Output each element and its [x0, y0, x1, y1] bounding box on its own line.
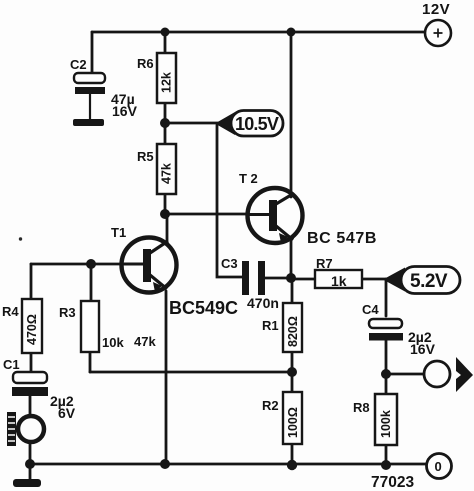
wire input node to T1 base [31, 263, 122, 266]
wire callout tip down to C3 [217, 125, 242, 277]
resistor R5 [137, 144, 176, 194]
wire R3 bottom [89, 352, 92, 372]
resistor R4 [2, 299, 42, 353]
capacitor C4 [362, 302, 436, 357]
wire feedback R3 to R1/R2 node [90, 371, 292, 374]
12V supply terminal [422, 1, 451, 46]
wire T1 collector riser [166, 214, 169, 244]
voltage callout 10.5V [215, 111, 283, 137]
node mic/rail [25, 459, 35, 469]
capacitor C3 [221, 256, 279, 311]
svg-text:12V: 12V [422, 1, 450, 18]
speck [19, 237, 22, 240]
node R1/R2 [287, 367, 297, 377]
svg-text:12k: 12k [160, 72, 174, 93]
resistor R7 [315, 256, 362, 289]
svg-text:47k: 47k [134, 334, 156, 349]
node T2 collector top [287, 28, 296, 37]
svg-text:47k: 47k [160, 163, 174, 184]
node R2/rail [287, 460, 297, 470]
wire C4 bottom to node [385, 340, 388, 374]
wire R5 top [164, 123, 167, 144]
wire R1 bottom to node [291, 352, 294, 372]
wire node to R7 [291, 278, 315, 281]
svg-text:470Ω: 470Ω [25, 314, 39, 345]
svg-text:100k: 100k [379, 410, 393, 438]
wire ground drop [29, 464, 32, 479]
node R8/rail [381, 460, 391, 470]
capacitor C1 [3, 357, 76, 421]
svg-text:16V: 16V [410, 341, 436, 357]
wire top rail [92, 31, 425, 34]
wire 5.2V tip down to C4 [385, 279, 388, 316]
svg-text:10.5V: 10.5V [235, 114, 279, 134]
wire R8 bottom to rail [385, 445, 388, 466]
wire R1 top [291, 278, 294, 303]
node R3 top [86, 259, 96, 269]
wire R4 bottom to C1 [30, 353, 33, 372]
resistor R6 [137, 53, 176, 103]
wire T2 collector riser [290, 32, 293, 197]
wire R6 bottom to node [164, 101, 167, 123]
svg-text:100Ω: 100Ω [286, 407, 300, 438]
svg-text:1k: 1k [331, 273, 347, 289]
wire node to 10.5V callout [165, 122, 219, 125]
capacitor C2 [70, 57, 138, 119]
resistor R2 [262, 392, 302, 444]
svg-text:16V: 16V [112, 103, 138, 119]
node R5/T1 collector [160, 209, 170, 219]
svg-text:10k: 10k [102, 335, 124, 350]
wire C2 top drop [91, 32, 94, 72]
svg-text:T1: T1 [111, 225, 126, 240]
resistor R8 [353, 394, 397, 445]
wire bottom rail [30, 463, 427, 466]
voltage callout 5.2V [383, 267, 460, 294]
svg-text:C4: C4 [362, 302, 379, 317]
svg-text:R1: R1 [262, 318, 279, 333]
svg-text:R8: R8 [353, 400, 370, 415]
svg-text:R6: R6 [137, 56, 154, 71]
node R6 top [161, 28, 170, 37]
wire C1 to microphone [29, 396, 32, 415]
svg-text:820Ω: 820Ω [286, 316, 300, 347]
svg-text:R4: R4 [2, 304, 19, 319]
svg-text:T 2: T 2 [239, 171, 258, 186]
wire T2 emitter drop [290, 240, 293, 278]
ground symbol [13, 479, 41, 487]
wire R2 bottom to rail [291, 444, 294, 465]
svg-text:R5: R5 [137, 149, 154, 164]
wire microphone to rail [29, 443, 32, 464]
wire C3 to node [265, 277, 291, 280]
wire R5 bottom to node [164, 193, 167, 214]
ground below C2 [73, 119, 104, 126]
svg-text:R7: R7 [316, 256, 333, 271]
svg-text:470n: 470n [247, 295, 279, 311]
resistor R3 [59, 301, 156, 352]
node junction dots [25, 28, 391, 471]
0V terminal [427, 454, 452, 479]
node T1 emitter/rail [160, 459, 170, 469]
svg-text:BC 547B: BC 547B [307, 230, 377, 247]
transistor T1 BC549C [111, 225, 238, 318]
output terminal [424, 357, 473, 392]
svg-text:R3: R3 [59, 305, 76, 320]
wire node to R8 [385, 374, 388, 394]
resistor R1 [262, 303, 302, 352]
microphone [7, 412, 44, 446]
wire T1 emitter down to rail [165, 291, 168, 464]
wire R6 top drop [164, 32, 167, 54]
wire R7 to 5.2V tip [362, 278, 386, 281]
svg-text:0: 0 [435, 459, 442, 474]
wire node to output terminal [386, 373, 424, 376]
svg-text:C2: C2 [70, 57, 87, 72]
svg-text:6V: 6V [58, 405, 76, 421]
svg-text:BC549C: BC549C [169, 298, 238, 318]
wire R2 top [291, 372, 294, 392]
node C4/output/R8 [381, 369, 391, 379]
transistor T2 BC547B [239, 171, 377, 247]
wire R3 top [90, 264, 93, 301]
wire R4 top [30, 264, 33, 299]
svg-text:R2: R2 [262, 398, 279, 413]
wire T2 base [165, 213, 248, 216]
svg-text:C3: C3 [221, 256, 238, 271]
svg-text:77023: 77023 [371, 474, 414, 491]
node R6/R5 [160, 118, 170, 128]
svg-text:C1: C1 [3, 357, 20, 372]
svg-text:5.2V: 5.2V [410, 271, 448, 292]
node T2 emitter/C3/R7/R1 [286, 273, 296, 283]
